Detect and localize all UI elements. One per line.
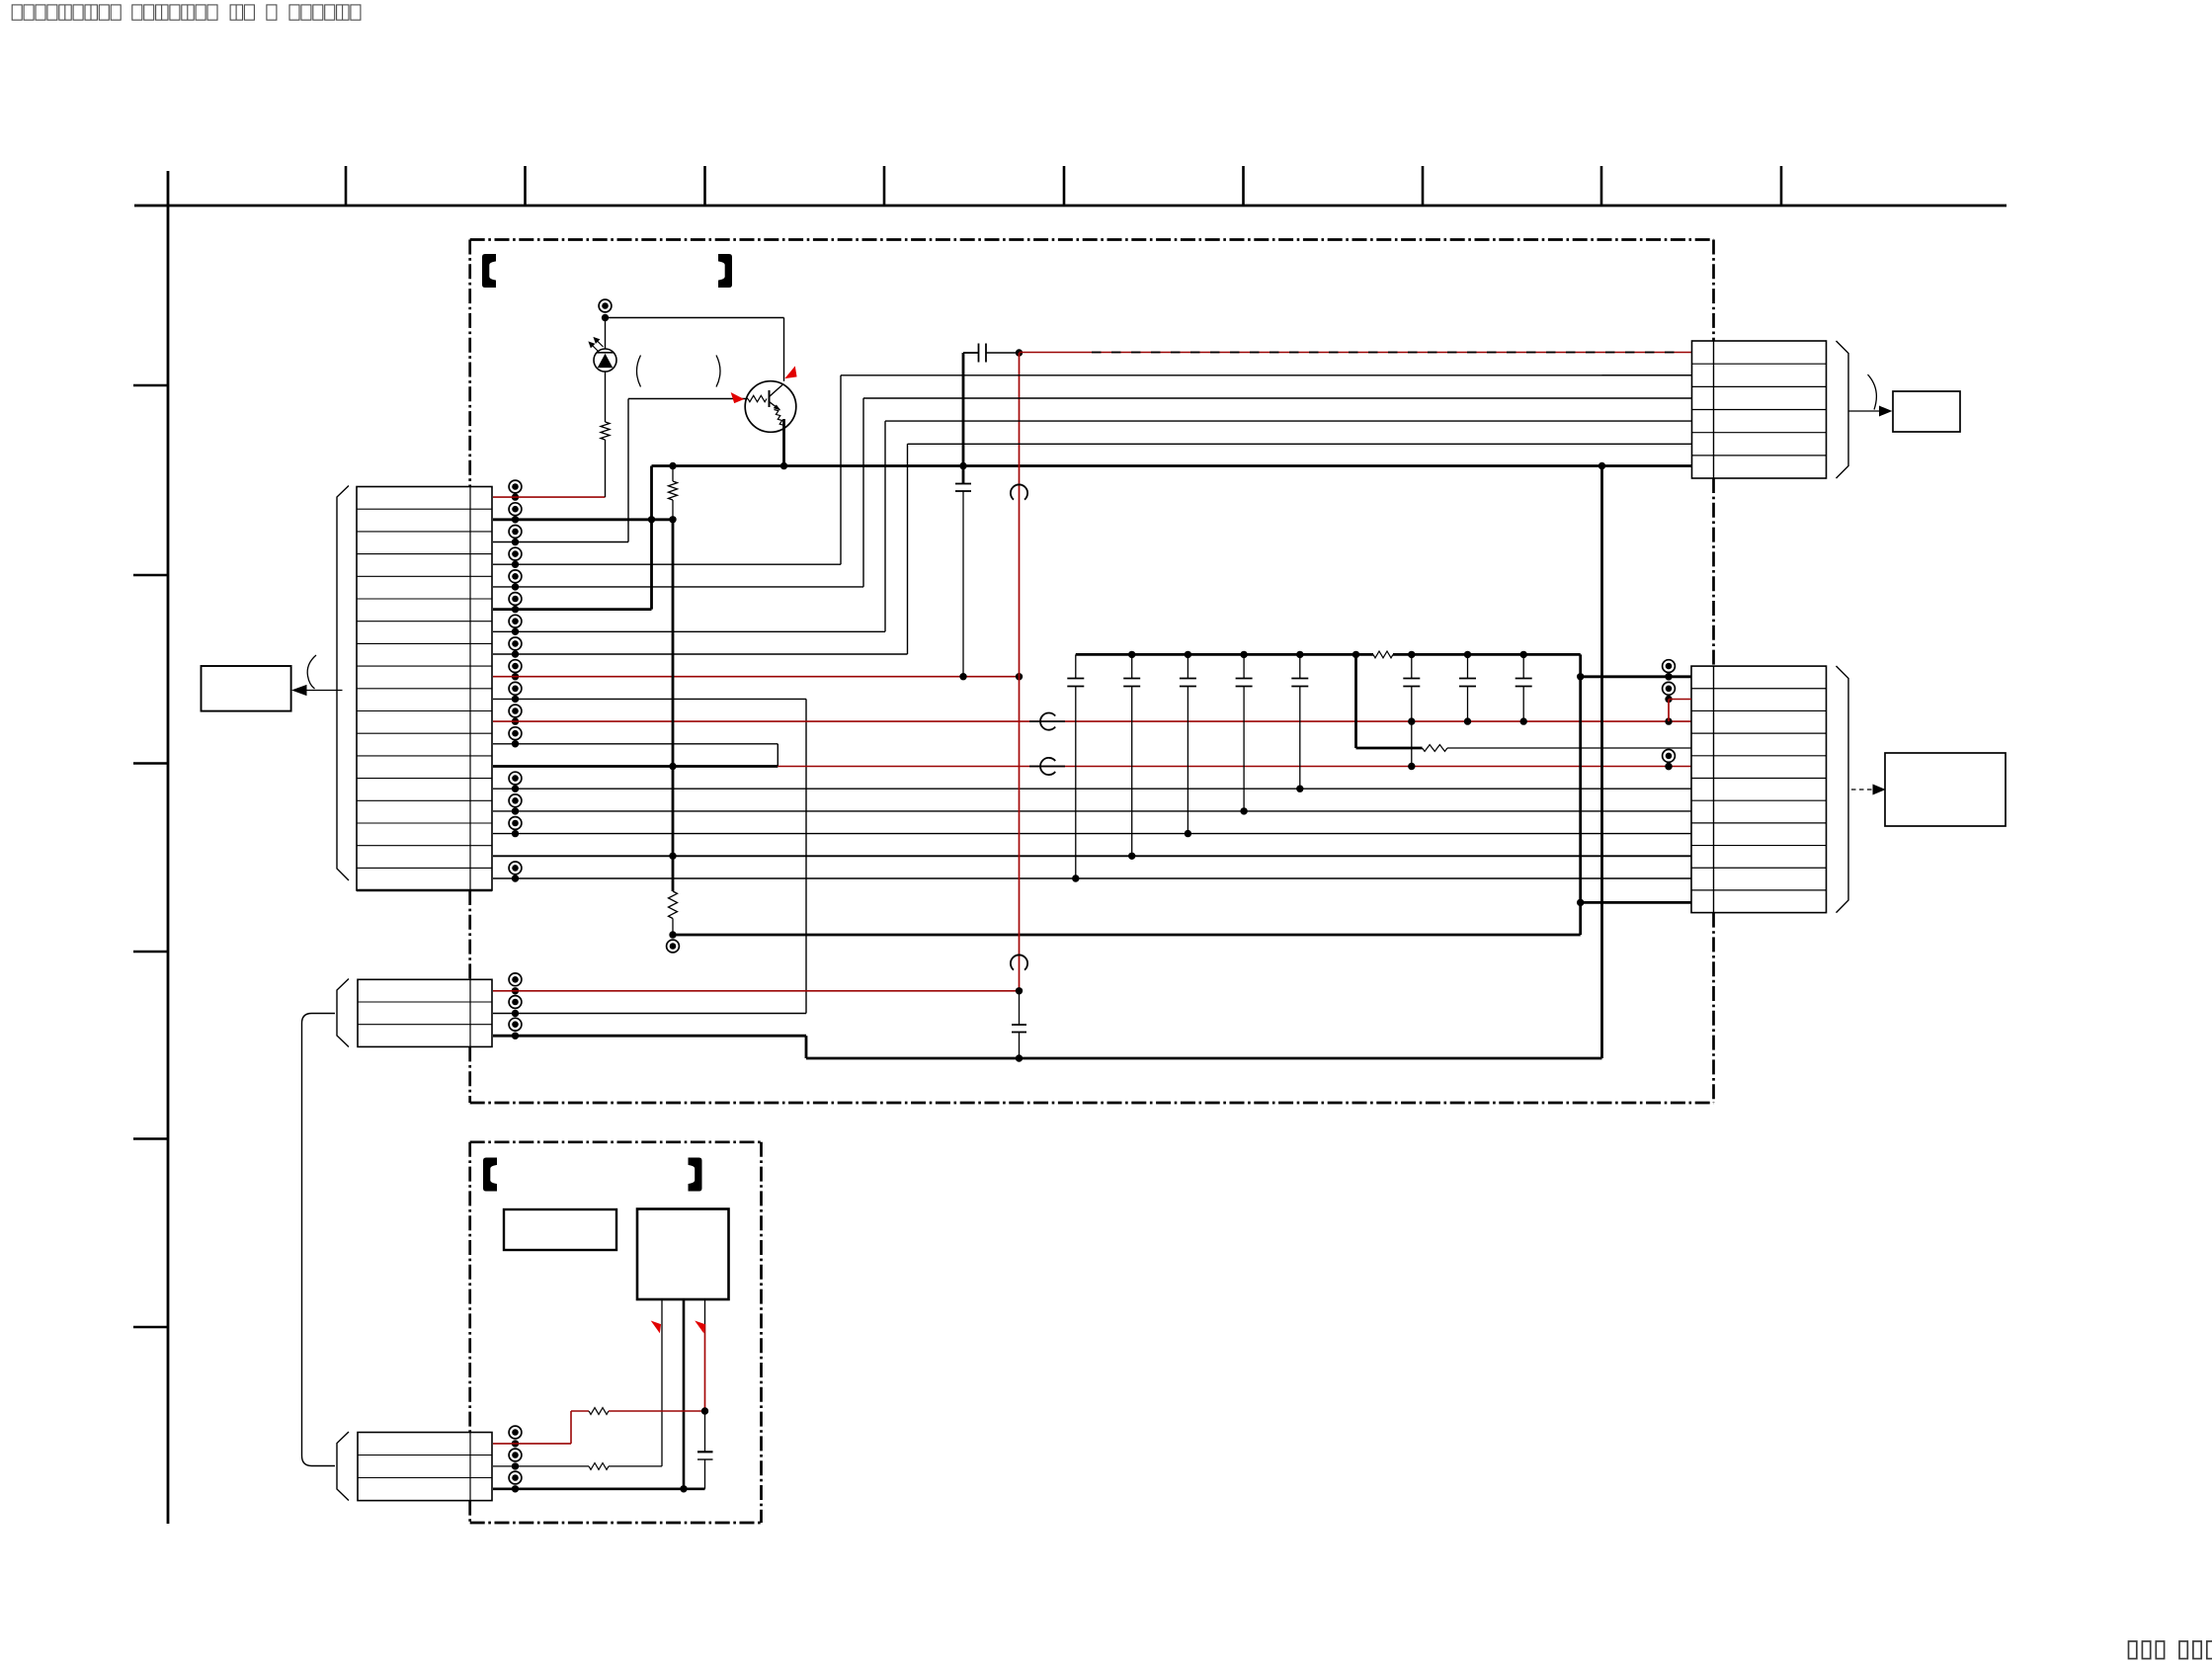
main board dash-dot outline [470,238,1714,241]
emitter lead thick [782,419,785,466]
frame left border line [167,171,170,1524]
resistor R-LED [601,422,610,440]
wire CN1 row7 [493,630,885,632]
frame left tick marks [133,384,168,387]
sub IC square [637,1209,729,1300]
wire CN1 row4 [493,563,841,565]
riser row10 down to CD connector [805,699,807,1013]
label box right-top [1893,391,1960,432]
wire CN1 row3 to base riser [493,541,628,543]
pin joint above LED [599,299,612,312]
connector CN1 harness bracket [337,486,349,881]
red arrow on lead3 [696,1322,705,1333]
CD row3 jog [805,1036,808,1058]
capacitor bank bus [1076,653,1373,656]
IC lead 3 red part [704,1324,706,1411]
connector CN1 pins [509,480,522,493]
IC lead 1 [661,1299,663,1466]
sub board title bracket right [689,1158,701,1191]
red marks on transistor [786,368,797,378]
CN5 row2 wire with resistor [493,1465,589,1467]
wire CN1 row15 [493,810,1691,812]
shield mark on red vertical (bottom) [1011,955,1027,969]
wire CN1 row5 [493,586,863,588]
CN2 wires entering [1602,374,1692,376]
main board title bracket right [719,255,732,288]
red top feed line to CN2 [1020,352,1692,354]
IC lead 2 thick [683,1299,686,1489]
wire rows CN2 [841,374,1691,376]
shield mark on red vertical (top) [1011,484,1027,499]
connector CN5 harness bracket [337,1432,349,1501]
riser row4 [840,375,842,564]
capacitor C1 [1075,654,1077,678]
red vertical bottom cap [1019,991,1021,1025]
CN3 pin joints [1663,660,1676,673]
connector CN3 harness bracket [1837,666,1849,913]
connector CN4 body [358,979,492,1046]
wire CN1 row16 [493,833,1691,835]
thick riser to bus [650,466,653,610]
series capacitor horizontal [963,352,979,354]
sub board dash-dot outline [470,1140,762,1143]
capacitor C5 [1299,654,1301,678]
shield mark on row11 [1040,713,1055,730]
capacitor C6 [1411,654,1413,678]
thick wire y=946 [673,934,1581,937]
connector CN2 body [1692,341,1827,478]
connector CN4 harness bracket [337,979,349,1047]
connector CN3 body [1691,666,1827,913]
capacitor C2 [1131,654,1133,678]
left label arrow [302,690,343,692]
shield mark on row13 [1040,758,1055,775]
red vertical +B line [1019,353,1021,991]
row12 drop [777,744,778,767]
CN5 row1 red wire with jog and resistor [493,1443,571,1445]
capacitor C8 [1522,654,1524,678]
header missing-glyph text row [12,5,22,20]
CN4 row1 red wire [493,990,1020,992]
label box left [202,666,291,711]
CN2 detach arrow [1848,410,1882,412]
CN4 row2 wire [493,1013,806,1015]
bus series resistor [1373,651,1393,658]
wire CN1 row6 thick [493,608,652,611]
wire CN1 row14 [493,788,1691,790]
ground bus wire [652,464,1692,467]
IC lead 3 black part [704,1299,706,1324]
label parentheses [637,356,641,387]
riser row7 [884,421,886,631]
sub board title bracket left [484,1158,497,1191]
wire CN1 row1 (red) to LED chain [493,496,606,498]
capacitor C7 [1467,654,1469,678]
connector CN5 body [358,1433,492,1501]
capacitor C4 [1243,654,1245,678]
CN3 dashed detach arrow [1851,789,1876,790]
thick horizontal y=1071 [806,1057,1602,1060]
red arrow on lead1 [652,1322,661,1333]
sub label rectangle [504,1209,616,1250]
LED light arrows [591,344,599,352]
main board title bracket left [483,255,496,288]
capacitor chain x=975 [962,353,965,484]
thick drop at x=1372.5 with series resistor [1354,654,1357,748]
pin joint below vertical B [667,940,680,953]
wire CN1 row17 thick [493,855,1691,857]
connector CN2 harness bracket [1837,341,1849,478]
wire CN1 row18 [493,877,1691,879]
riser to transistor base [627,399,629,542]
connector CN5 pins [509,1426,522,1439]
resistor chain R-B top [672,466,674,482]
link wire between connectors [302,1014,336,1466]
base wire [628,398,748,400]
wire CN1 row8 [493,653,908,655]
resistor chain R-B bottom [669,891,678,919]
connector CN4 pins [509,973,522,986]
long vertical B thick [672,520,675,891]
label box right-mid [1885,753,2006,826]
riser row5 [862,398,864,587]
connector CN1 body [357,487,492,891]
riser row8 [907,444,909,654]
capacitor C3 [1187,654,1188,678]
wire CN1 row2 thick [493,518,673,521]
thick vertical return [1600,466,1603,1059]
bus right corner drop [1579,654,1582,935]
transistor Q1 [745,381,796,433]
top rail [606,317,784,319]
footer missing-glyph text [2129,1641,2137,1659]
sub cap [704,1411,706,1452]
LED D1 [605,318,607,350]
thick branch into CN3 row1 [1581,675,1691,678]
wire CN1 row9 (red) [493,676,1020,678]
frame top tick marks [345,166,348,206]
wire CN1 row12 [493,743,778,745]
wire CN1 row11 (red) long [493,720,1691,722]
frame top border line [134,205,2007,208]
CN5 row3 thick wire [493,1488,705,1491]
red jog into CN3 row2 [1669,699,1691,701]
CN4 row3 thick wire [493,1035,806,1038]
wire CN1 row10 [493,698,806,700]
thick branch to CN3 bottom row [1577,899,1584,906]
wire CN1 row13 thick + red continuation [493,765,778,768]
